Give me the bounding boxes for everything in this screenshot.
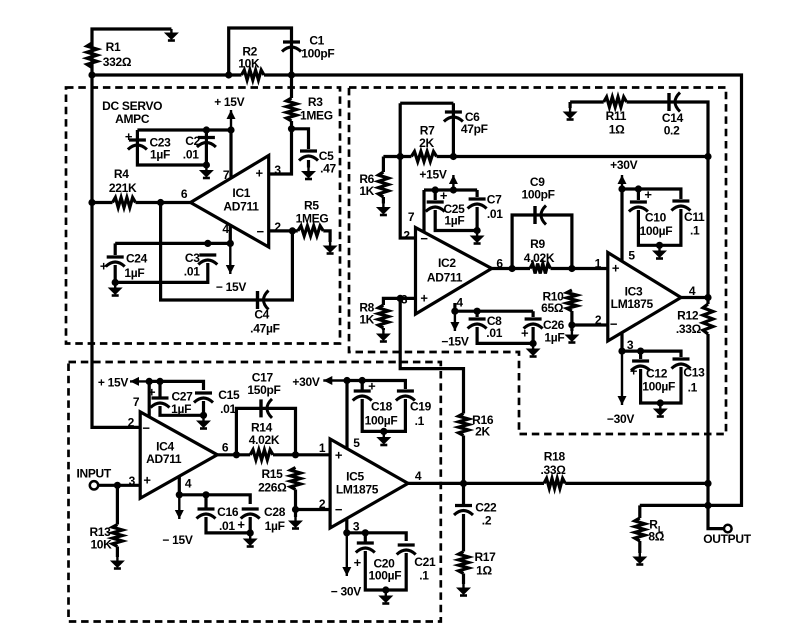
svg-text:10K: 10K	[238, 56, 260, 70]
value C14 0.2	[664, 124, 680, 138]
svg-text:4.02K: 4.02K	[249, 433, 280, 447]
value C20 100uF	[369, 569, 402, 583]
label C19	[410, 400, 432, 414]
svg-text:+15V: +15V	[419, 168, 446, 182]
resistor R6	[378, 172, 388, 197]
node R2/C1/R3	[288, 71, 295, 78]
svg-text:R11: R11	[606, 109, 627, 123]
value R9 4.02K	[524, 251, 555, 265]
polarity + C12	[630, 364, 638, 379]
pin 2 IC2	[403, 229, 410, 243]
wire R6 bottom	[382, 197, 385, 204]
capacitor C7	[468, 199, 487, 209]
node C2 ground	[203, 161, 210, 168]
label R4	[114, 167, 129, 181]
svg-text:+ 15V: + 15V	[98, 376, 128, 390]
capacitor C10	[629, 202, 648, 212]
pin 4 IC1	[222, 222, 229, 236]
supply +30V IC5	[292, 375, 319, 389]
capacitor C6	[444, 112, 463, 122]
capacitor C15	[194, 393, 213, 403]
svg-text:1µF: 1µF	[124, 266, 144, 280]
capacitor C25	[426, 202, 445, 212]
supply -15V IC1	[216, 280, 246, 294]
label C22	[475, 501, 497, 515]
value C26 1uF	[544, 331, 564, 345]
svg-text:IC2: IC2	[438, 256, 456, 270]
resistor R13	[112, 525, 122, 547]
capacitor C12	[631, 361, 650, 371]
svg-text:4: 4	[222, 222, 229, 236]
svg-text:1: 1	[319, 441, 326, 455]
wire RL top	[638, 505, 641, 518]
svg-text:LM1875: LM1875	[611, 297, 654, 311]
wire C27 bottom rail	[160, 406, 204, 415]
capacitor C17	[261, 399, 272, 418]
value R17 1ohm	[476, 564, 492, 578]
svg-text:AD711: AD711	[427, 271, 463, 285]
polarity + C24	[100, 259, 108, 274]
label DC SERVO	[102, 99, 162, 113]
value R7 2K	[419, 136, 434, 150]
wire C8/C26 bottom rail	[477, 327, 533, 343]
label OUTPUT	[703, 532, 752, 546]
svg-text:.47: .47	[320, 162, 336, 176]
label R13	[89, 525, 111, 539]
capacitor C23	[128, 140, 147, 150]
node C18/C19 ground	[380, 428, 387, 435]
label IC3	[625, 285, 643, 299]
svg-text:226Ω: 226Ω	[258, 481, 287, 495]
label R1	[106, 40, 121, 54]
resistor R1	[87, 43, 97, 68]
wire R16 to out node	[462, 436, 465, 484]
wire C23 left edge	[137, 130, 206, 165]
label R6	[359, 172, 374, 186]
node R2 left	[225, 71, 232, 78]
capacitor C22	[454, 506, 473, 516]
arrow +30V IC5 left	[323, 376, 347, 385]
resistor R18	[544, 478, 565, 488]
label R11	[606, 109, 627, 123]
label R12	[677, 309, 699, 323]
value R11 1ohm	[609, 123, 625, 137]
value C11 .1	[690, 224, 700, 238]
wire C24 bottom lead	[114, 265, 117, 284]
svg-text:+: +	[100, 259, 108, 274]
label C11	[684, 210, 705, 224]
value C21 .1	[419, 569, 429, 583]
node IC5 pin3	[343, 529, 350, 536]
label AMPC	[115, 112, 150, 126]
svg-text:2K: 2K	[419, 136, 434, 150]
wire R6 top	[382, 157, 385, 173]
svg-text:7: 7	[223, 168, 230, 182]
ground at R1 top	[164, 29, 179, 41]
node R7 right	[450, 153, 457, 160]
wire C24/C3 top rail	[115, 242, 230, 245]
svg-text:C13: C13	[683, 366, 705, 380]
resistor R8	[378, 305, 388, 328]
value R10 65ohm	[541, 301, 564, 315]
pin 5 IC5	[353, 436, 360, 450]
arrow -15V down IC1	[226, 243, 235, 274]
polarity + C18	[368, 379, 376, 394]
supply +15V IC4	[98, 376, 128, 390]
wire C16 lead	[204, 495, 207, 508]
plus input IC2	[420, 291, 428, 306]
arrow -30V IC5	[342, 533, 351, 576]
supply -30V IC3	[607, 412, 634, 426]
node R7 left	[397, 153, 404, 160]
polarity + C20	[354, 555, 362, 570]
wire C10/C11 top rail	[622, 189, 681, 199]
label C10	[645, 211, 667, 225]
ground under C20/C21	[378, 592, 393, 604]
ground under C10/C11	[652, 247, 667, 259]
node C18 top	[359, 377, 366, 384]
wire C23/C2 top rail	[137, 130, 231, 178]
svg-text:.01: .01	[486, 326, 502, 340]
resistor R7	[411, 152, 436, 162]
pin 2 IC1	[274, 220, 281, 234]
wire C10 lead	[637, 189, 640, 200]
value R2 10K	[238, 56, 260, 70]
svg-text:R9: R9	[530, 237, 545, 251]
label C21	[414, 555, 436, 569]
svg-text:+: +	[521, 326, 529, 341]
svg-text:.01: .01	[220, 402, 236, 416]
svg-text:C11: C11	[684, 210, 705, 224]
pin 7 IC1	[223, 168, 230, 182]
wire C5 to ground	[307, 160, 310, 168]
wire C8 lead	[476, 311, 479, 317]
pin 5 IC3	[628, 249, 635, 263]
wire C18 lead	[361, 381, 364, 391]
op-amp IC5 LM1875	[330, 439, 408, 528]
resistor R2	[242, 70, 265, 80]
wire C12/C13 bottom rail	[641, 367, 681, 403]
minus input IC3	[610, 317, 618, 332]
svg-text:+: +	[420, 291, 428, 306]
wire C4 loop	[161, 203, 293, 301]
svg-text:+: +	[237, 517, 245, 532]
arrow +15V up	[227, 110, 236, 130]
label R9	[530, 237, 545, 251]
arrow +15V IC4 left	[130, 377, 149, 386]
svg-text:C19: C19	[410, 400, 432, 414]
label C24	[126, 252, 148, 266]
svg-text:AD711: AD711	[146, 452, 182, 466]
capacitor C2	[197, 138, 216, 148]
svg-text:.33Ω: .33Ω	[540, 463, 566, 477]
svg-text:100pF: 100pF	[301, 47, 334, 61]
polarity + C25	[440, 188, 448, 203]
svg-text:.1: .1	[419, 569, 429, 583]
label C23	[149, 136, 171, 150]
value C24 1uF	[124, 266, 144, 280]
wire R2/C1 parallel loop	[229, 28, 292, 75]
svg-text:− 30V: − 30V	[331, 585, 361, 599]
wire IC2 pin7	[422, 190, 425, 232]
label R2	[242, 44, 257, 58]
svg-text:DC SERVO: DC SERVO	[102, 99, 162, 113]
node pin3 branch	[397, 295, 404, 302]
svg-text:221K: 221K	[109, 181, 137, 195]
polarity + C23	[125, 129, 133, 144]
value R6 1K	[359, 184, 374, 198]
ground under C12/C13	[653, 405, 668, 417]
pin 2 IC4	[128, 416, 135, 430]
pin 4 IC4	[185, 477, 192, 491]
label C25	[443, 202, 465, 216]
resistor R10	[567, 290, 577, 311]
value C16 .01	[219, 519, 235, 533]
pin 3 IC4	[129, 474, 136, 488]
label C9	[530, 175, 545, 189]
svg-text:−15V: −15V	[441, 335, 468, 349]
wire zobel2	[627, 102, 708, 157]
svg-text:1µF: 1µF	[265, 519, 285, 533]
value C4 .47uF	[250, 322, 279, 336]
svg-text:+: +	[612, 261, 620, 276]
svg-text:+30V: +30V	[610, 158, 637, 172]
node C20/C21 ground	[382, 586, 389, 593]
svg-text:−30V: −30V	[607, 412, 634, 426]
svg-text:+: +	[354, 555, 362, 570]
node IC5 pin2	[292, 506, 299, 513]
pin 3 IC1	[274, 163, 281, 177]
label R15	[261, 467, 283, 481]
value C3 .01	[184, 265, 200, 279]
svg-text:150pF: 150pF	[247, 383, 280, 397]
plus input IC1	[256, 166, 264, 181]
node R14 right	[292, 451, 299, 458]
wire IC4 out	[217, 453, 250, 456]
resistor R9	[530, 264, 551, 274]
op-amp IC4 AD711	[140, 412, 217, 498]
label LM1875 IC5	[336, 483, 379, 497]
wire C20/C21 bottom rail	[365, 551, 406, 590]
svg-text:C1: C1	[309, 33, 324, 47]
capacitor C16	[197, 509, 216, 519]
node IC3 pin3	[618, 348, 625, 355]
svg-text:R17: R17	[474, 550, 496, 564]
svg-text:47pF: 47pF	[461, 122, 488, 136]
node arrow15	[450, 186, 457, 193]
wire IC4 pin7	[148, 381, 151, 417]
wire R12 bottom long	[708, 334, 725, 529]
capacitor C19	[396, 391, 415, 401]
dashed box DC servo amp	[66, 88, 340, 344]
label C16	[217, 505, 239, 519]
value C2 .01	[183, 148, 199, 162]
capacitor C9	[535, 206, 546, 225]
svg-text:100µF: 100µF	[365, 414, 398, 428]
svg-text:100pF: 100pF	[522, 188, 555, 202]
resistor R3	[287, 98, 297, 121]
supply +15V	[214, 95, 244, 109]
svg-text:1K: 1K	[359, 313, 374, 327]
node C12/C13 ground	[657, 399, 664, 406]
wire top feedback run to output	[292, 75, 742, 505]
pin 7 IC4	[133, 395, 140, 409]
wire IC1 pin2	[269, 229, 298, 232]
pin 3 IC5	[353, 520, 360, 534]
ground under C15	[196, 417, 211, 429]
terminal INPUT	[90, 481, 98, 489]
wire C12/C13 top rail	[622, 351, 681, 357]
pin 3 IC3	[627, 338, 634, 352]
dashed box input amp	[69, 362, 441, 622]
svg-text:100µF: 100µF	[642, 380, 675, 394]
svg-text:4.02K: 4.02K	[524, 251, 555, 265]
node pin5 IC5	[343, 377, 350, 384]
wire IC2 pin3	[383, 298, 415, 305]
svg-text:10K: 10K	[90, 538, 112, 552]
wire IC3 pin5	[620, 189, 623, 262]
label C4	[254, 308, 269, 322]
svg-text:65Ω: 65Ω	[541, 301, 564, 315]
wire C15 bottom lead	[202, 401, 205, 417]
svg-text:+: +	[335, 448, 343, 463]
capacitor C14	[669, 93, 680, 112]
svg-text:R12: R12	[677, 309, 699, 323]
svg-text:C7: C7	[487, 193, 502, 207]
resistor R11	[604, 97, 627, 107]
node R18 right	[704, 480, 711, 487]
node pin4 rail	[227, 240, 234, 247]
svg-text:1MEG: 1MEG	[296, 212, 329, 226]
wire R4 to IC1 output	[136, 201, 191, 204]
arrow +30V IC3	[618, 175, 627, 189]
value R14 4.02K	[249, 433, 280, 447]
plus input IC5	[335, 448, 343, 463]
label C3	[185, 251, 200, 265]
wire C5 branch	[292, 129, 309, 149]
node pin5 rail	[618, 185, 625, 192]
minus input IC2	[420, 231, 428, 246]
label R18	[544, 450, 566, 464]
wire R2 to C1 node	[264, 73, 292, 76]
ground at IC3 pin2	[564, 331, 579, 343]
node C7 ground	[474, 227, 481, 234]
node C20 top	[362, 529, 369, 536]
label R16	[472, 413, 494, 427]
ground under C2	[199, 167, 214, 179]
value C18 100uF	[365, 414, 398, 428]
svg-text:−: −	[257, 224, 265, 239]
wire IC3 pin2	[572, 323, 608, 326]
wire R5 to ground	[323, 231, 330, 242]
label R14	[251, 421, 273, 435]
svg-text:6: 6	[222, 441, 229, 455]
svg-text:0.2: 0.2	[664, 124, 680, 138]
wire R10 bottom	[570, 311, 573, 325]
ground under C18/C19	[376, 434, 391, 446]
wire R7/C6 loop	[400, 102, 453, 105]
svg-text:C18: C18	[371, 400, 393, 414]
pin 1 IC3	[595, 257, 602, 271]
node rail to output	[704, 153, 711, 160]
label IC2	[438, 256, 456, 270]
node pin7 IC4	[146, 378, 153, 385]
svg-text:C21: C21	[414, 555, 436, 569]
wire IC2 pin2 net	[400, 103, 415, 238]
ground under R13	[110, 557, 125, 569]
svg-text:100µF: 100µF	[640, 224, 673, 238]
wire C9 loop	[512, 215, 572, 269]
node pin2/C4/R5	[289, 227, 296, 234]
wire pin2 IC5 gnd stub	[294, 510, 297, 518]
wire RL bottom	[638, 541, 641, 553]
wire main top rail	[92, 73, 242, 76]
value R13 10K	[90, 538, 112, 552]
label INPUT	[76, 467, 111, 481]
pin 3 IC2	[401, 293, 408, 307]
node C12 top	[637, 348, 644, 355]
label AD711 IC4	[146, 452, 182, 466]
value R4 221K	[109, 181, 137, 195]
resistor R5	[298, 226, 324, 236]
svg-text:2: 2	[403, 229, 410, 243]
svg-text:1Ω: 1Ω	[476, 564, 492, 578]
svg-text:8Ω: 8Ω	[648, 530, 664, 544]
value C9 100pF	[522, 188, 555, 202]
node pin4 IC4	[176, 491, 183, 498]
svg-text:1: 1	[595, 257, 602, 271]
capacitor C1	[282, 42, 301, 52]
value C17 150pF	[247, 383, 280, 397]
svg-text:+: +	[143, 473, 151, 488]
node R1/R2 junction	[88, 71, 95, 78]
label C26	[543, 318, 565, 332]
node IC2 out	[508, 265, 515, 272]
node IC1 pin6	[157, 199, 164, 206]
label AD711 IC1	[223, 200, 259, 214]
svg-text:3: 3	[274, 163, 281, 177]
svg-text:.01: .01	[184, 265, 200, 279]
value C7 .01	[487, 207, 503, 221]
pin 4 IC5	[415, 469, 422, 483]
label C5	[319, 149, 334, 163]
wire R17 to ground	[462, 574, 465, 585]
node C15 ground	[200, 412, 207, 419]
pin 6 IC1	[181, 187, 188, 201]
node R3/C5	[288, 125, 295, 132]
node IC3 pin2	[568, 321, 575, 328]
label C13	[683, 366, 705, 380]
svg-text:R4: R4	[114, 167, 129, 181]
ground under C28	[243, 535, 258, 547]
label IC1	[232, 186, 250, 200]
label C8	[487, 314, 502, 328]
label C1	[309, 33, 324, 47]
label C17	[252, 371, 274, 385]
wire C20 lead	[364, 533, 367, 542]
node IC5 out junction	[460, 480, 467, 487]
svg-text:C28: C28	[264, 505, 286, 519]
ground at zobel	[563, 108, 578, 120]
wire C12 lead	[639, 351, 642, 359]
wire IC5 pin3	[345, 519, 348, 533]
arrow -30V IC3	[618, 351, 627, 405]
ground under C5	[301, 168, 316, 180]
terminal OUTPUT	[724, 525, 732, 533]
wire R1 bottom to node	[90, 68, 93, 76]
svg-text:1µF: 1µF	[150, 148, 170, 162]
wire R14 to IC5	[273, 453, 330, 456]
